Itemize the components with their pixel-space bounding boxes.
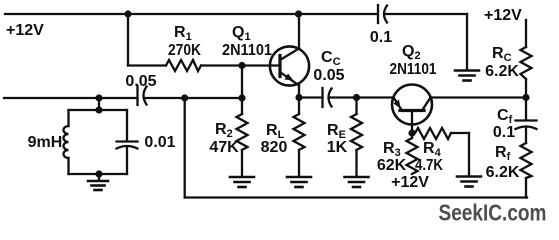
transistor Q1 emitter arrow — [285, 74, 294, 81]
svg-text:R2: R2 — [215, 121, 233, 140]
wire tank right edge lower — [126, 147, 128, 174]
wire tank left edge upper — [67, 110, 69, 126]
wire top +12V rail — [5, 13, 378, 15]
wire R3 top lead — [411, 133, 413, 138]
ground (R2) — [230, 176, 254, 179]
svg-text:6.2K: 6.2K — [486, 164, 520, 181]
node top rail / R1 branch — [124, 10, 131, 17]
node input rail / feedback branch — [181, 94, 188, 101]
wire RL bottom lead — [298, 150, 300, 177]
svg-text:+12V: +12V — [391, 174, 429, 191]
transistor Q2 collector diagonal (right) — [422, 98, 431, 111]
wire Q2 collector to RC node — [431, 96, 527, 98]
svg-text:+12V: +12V — [6, 22, 44, 39]
svg-text:2N1101: 2N1101 — [222, 42, 272, 59]
svg-text:Rf: Rf — [495, 144, 511, 163]
inductor 9mH (coil bumps) — [64, 126, 69, 158]
node RE junction — [353, 94, 360, 101]
resistor R1 270K (horizontal zigzag) — [166, 60, 201, 71]
node input rail / R2 top — [238, 94, 245, 101]
wire Q2 base lead down — [411, 111, 413, 134]
wire CC to Q2 emitter — [331, 96, 394, 98]
resistor R2 47K (vertical zigzag) — [237, 114, 248, 150]
node tank circuit tap — [95, 94, 102, 101]
wire Cf to Rf — [525, 129, 527, 144]
svg-text:Q2: Q2 — [402, 43, 421, 62]
resistor Rf 6.2K (vertical zigzag) — [521, 143, 532, 178]
wire Q1 emitter down to emitter node — [298, 86, 300, 98]
svg-text:R1: R1 — [174, 24, 192, 43]
transistor Q2 emitter diagonal (left, with arrow) — [394, 98, 403, 111]
node tank top — [95, 106, 102, 113]
capacitor 0.1 right plate (curved) — [384, 6, 387, 23]
node Q2 base / R3 / R4 junction — [408, 129, 415, 136]
wire down to top ground — [466, 14, 468, 70]
ground (RL) — [287, 176, 311, 179]
svg-text:1K: 1K — [327, 139, 348, 156]
ground (tank) — [88, 180, 108, 183]
wire R1 to Q1 base — [201, 64, 280, 66]
resistor RE 1K (vertical zigzag) — [351, 114, 362, 150]
capacitor Cf 0.1 top plate — [516, 119, 537, 121]
resistor R3 62K (vertical zigzag) — [407, 138, 418, 174]
wire RE top lead — [355, 98, 357, 115]
capacitor Cf 0.1 bottom plate (curved) — [516, 127, 537, 130]
svg-text:820: 820 — [261, 139, 288, 156]
transistor Q2 (circle) — [392, 85, 432, 125]
svg-text:CC: CC — [321, 49, 341, 68]
wire Rf bottom to bottom rail — [525, 178, 527, 198]
capacitor 0.1 left plate (top coupling cap) — [377, 5, 379, 23]
svg-text:4.7K: 4.7K — [415, 157, 443, 174]
wire tank ground stub — [98, 174, 100, 181]
transistor Q1 (circle) — [270, 46, 309, 85]
svg-text:9mH: 9mH — [28, 134, 63, 151]
svg-text:2N1101: 2N1101 — [390, 61, 437, 78]
wire R2 bottom lead — [241, 150, 243, 177]
transistor Q1 emitter diagonal — [280, 72, 299, 86]
transistor Q1 collector diagonal — [280, 49, 299, 61]
wire bottom rail — [185, 196, 527, 198]
wire R4 to ground corner — [451, 132, 469, 134]
resistor R4 4.7K (horizontal zigzag) — [415, 128, 451, 139]
resistor RL 820 (vertical zigzag) — [294, 114, 305, 150]
svg-text:47K: 47K — [209, 139, 239, 156]
wire R4 ground lead down — [468, 133, 470, 176]
svg-text:6.2K: 6.2K — [485, 63, 519, 80]
capacitor 0.05 left plate (input coupling) — [136, 86, 138, 105]
svg-text:0.05: 0.05 — [125, 73, 156, 90]
svg-text:270K: 270K — [168, 42, 201, 59]
transistor Q1 base bar — [278, 56, 281, 77]
resistor RC 6.2K (vertical zigzag) — [521, 47, 532, 79]
capacitor 0.05 right plate (curved) — [144, 87, 147, 105]
wire RL top lead — [298, 98, 300, 115]
wire input rail to base junction — [146, 97, 242, 99]
node RC / Cf / Q2 collector junction — [522, 94, 529, 101]
ground (top, 0.1 cap return) — [455, 69, 479, 72]
wire feedback branch vertical (input rail to bottom rail) — [184, 98, 186, 198]
wire +12V right supply lead — [525, 20, 527, 47]
svg-text:0.01: 0.01 — [144, 134, 175, 151]
node Q1 collector on top rail — [295, 10, 302, 17]
svg-text:+12V: +12V — [484, 7, 522, 24]
svg-text:SeekIC.com: SeekIC.com — [439, 200, 547, 226]
wire input rail (left) — [4, 97, 138, 99]
capacitor 0.01 top plate — [117, 140, 138, 142]
svg-text:0.05: 0.05 — [313, 67, 344, 84]
node Q1 emitter / RL / CC junction — [295, 94, 302, 101]
wire tank top edge — [69, 109, 128, 111]
svg-text:0.1: 0.1 — [493, 124, 515, 141]
capacitor CC 0.05 right plate (curved) — [329, 89, 332, 107]
wire tank left edge lower — [67, 158, 69, 174]
wire Q1 collector up to top rail — [298, 14, 300, 49]
svg-text:0.1: 0.1 — [370, 29, 392, 46]
wire R2 top lead — [241, 98, 243, 114]
wire emitter node to CC — [299, 96, 323, 98]
wire vertical from top rail down to R1 row — [127, 14, 129, 66]
wire Cf top lead — [525, 98, 527, 120]
capacitor 0.01 bottom plate (curved) — [117, 146, 138, 149]
svg-text:RC: RC — [492, 45, 512, 64]
svg-text:62K: 62K — [377, 157, 407, 174]
ground (R4) — [457, 175, 481, 178]
wire top rail right of 0.1 cap — [386, 13, 467, 15]
ground (RE) — [345, 176, 369, 179]
wire R1 row left lead — [128, 64, 166, 66]
node base/R2 junction on base wire — [238, 62, 245, 69]
transistor Q2 bar — [400, 109, 424, 112]
wire RE bottom lead — [355, 150, 357, 177]
svg-text:Q1: Q1 — [232, 24, 251, 43]
wire base junction down to input rail — [241, 66, 243, 99]
wire tank bottom edge — [69, 173, 128, 175]
wire RC bottom to collector node — [525, 79, 527, 98]
node tank bottom — [95, 170, 102, 177]
wire tank stub — [98, 98, 100, 110]
capacitor CC 0.05 left plate — [321, 88, 323, 107]
wire tank right edge upper — [126, 110, 128, 141]
transistor Q2 emitter arrow — [394, 100, 401, 109]
